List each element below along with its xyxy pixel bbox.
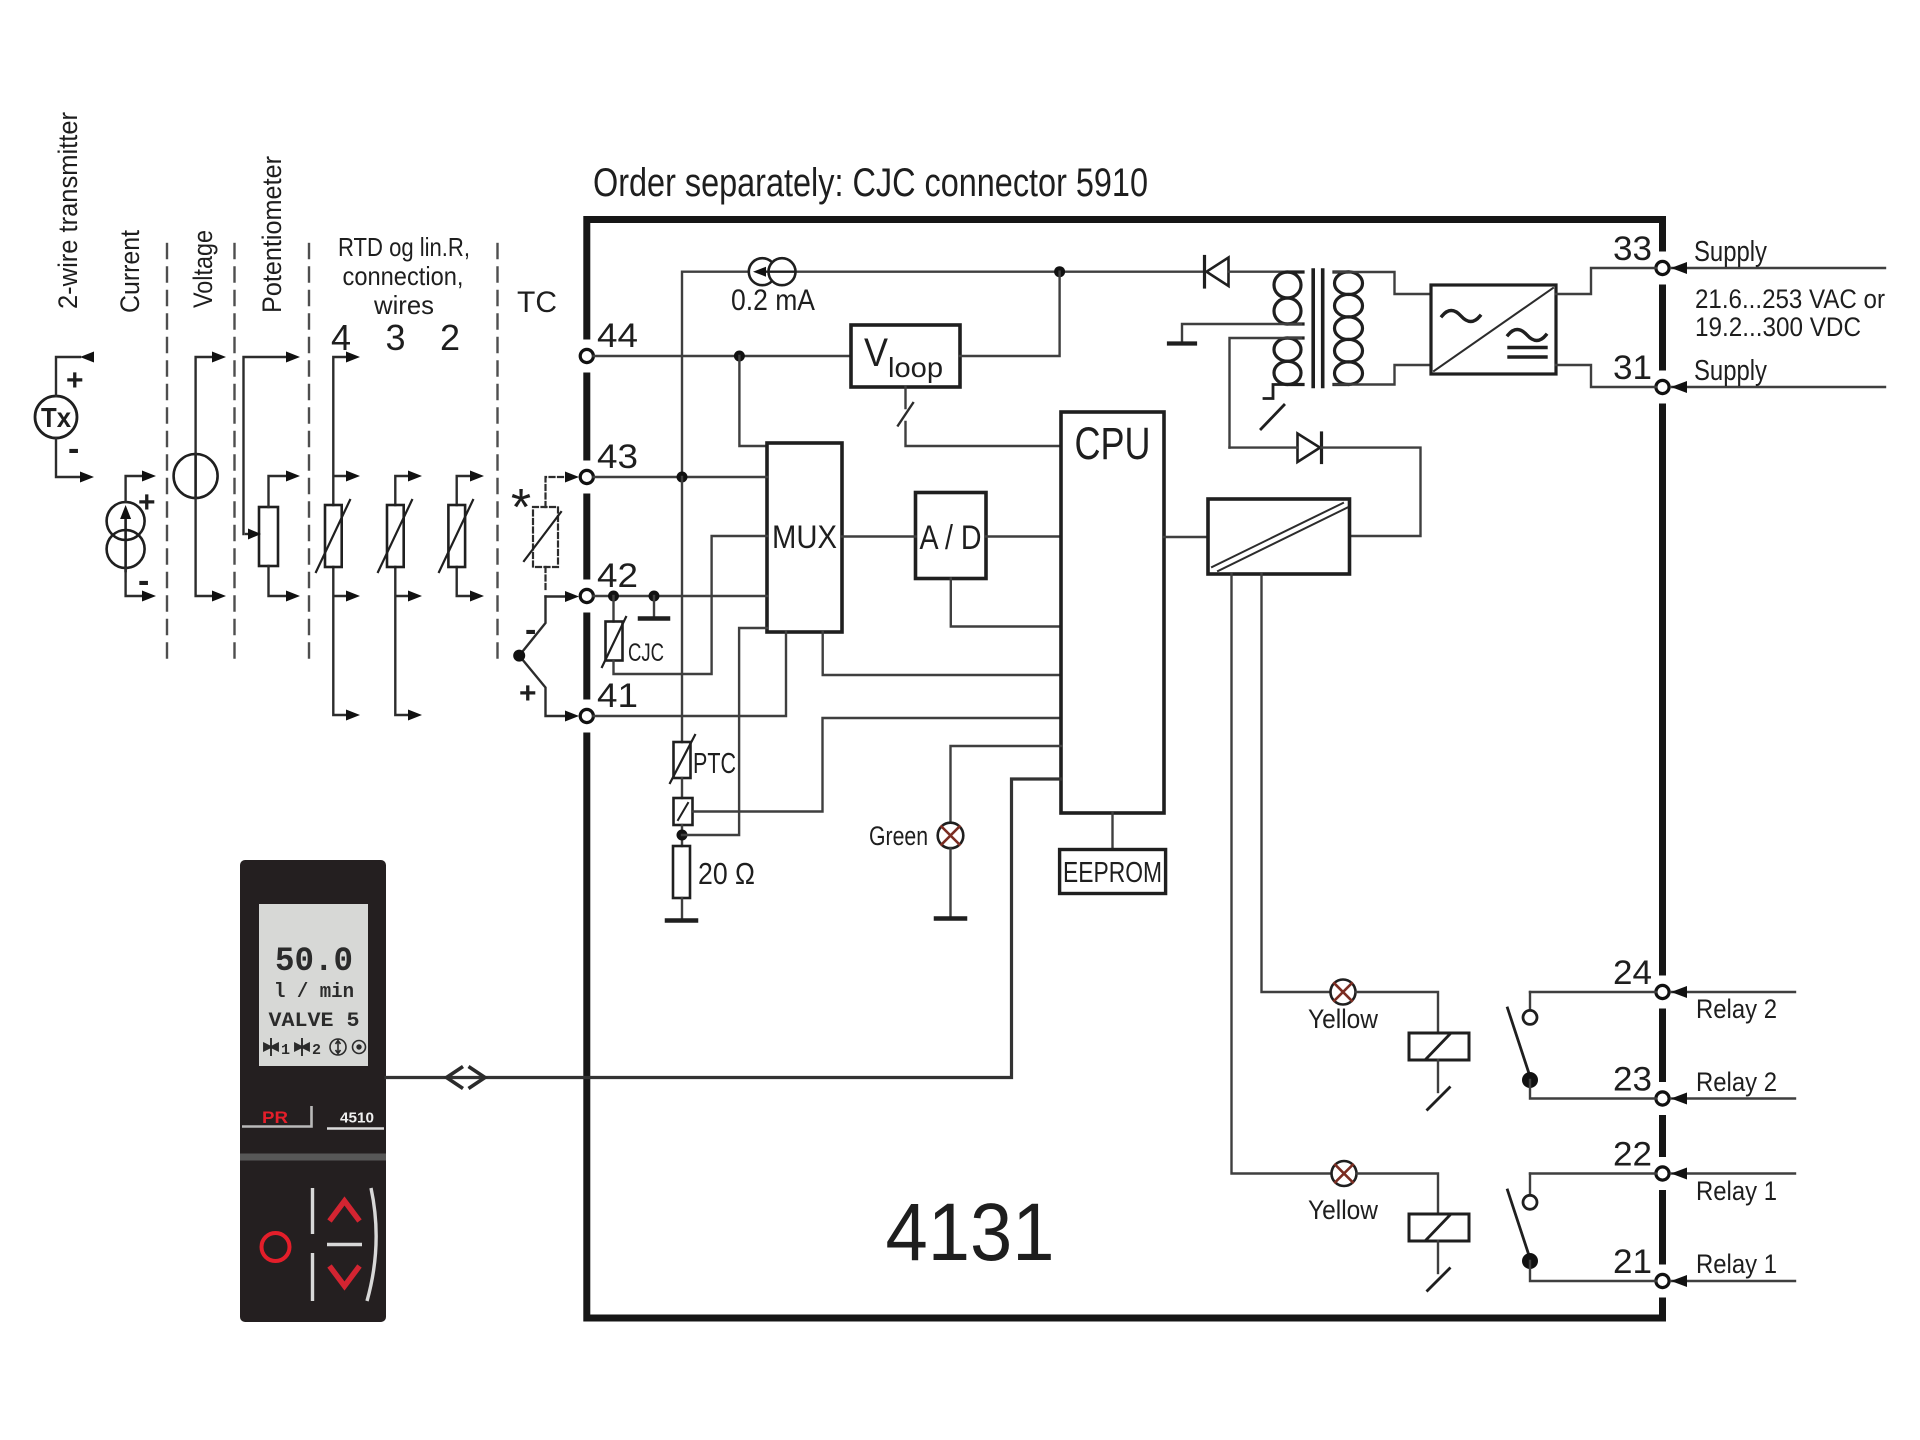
svg-text:3: 3: [385, 317, 405, 358]
svg-text:2: 2: [440, 317, 460, 358]
switch relay2: [1529, 992, 1531, 1009]
box CPU: [1061, 412, 1164, 813]
svg-text:Relay 2: Relay 2: [1696, 994, 1777, 1024]
wire voltage plus: [196, 357, 212, 454]
svg-text:l / min: l / min: [274, 981, 354, 1004]
transformer primary upper: [1274, 272, 1301, 298]
svg-text:23: 23: [1613, 1061, 1652, 1099]
LED yellow relay1: [1332, 1161, 1357, 1186]
wire zero-adjust to CPU: [693, 718, 1062, 812]
svg-text:Order separately: CJC connecto: Order separately: CJC connector 5910: [593, 161, 1148, 205]
wire opto to relay1 LED: [1232, 574, 1332, 1174]
svg-text:2-wire transmitter: 2-wire transmitter: [53, 112, 83, 309]
svg-text:+: +: [519, 677, 537, 710]
resistor CJC: [612, 596, 614, 622]
svg-text:44: 44: [597, 317, 638, 355]
svg-text:31: 31: [1613, 349, 1652, 387]
wire relay1 22: [1671, 1172, 1795, 1174]
svg-text:41: 41: [597, 677, 638, 715]
svg-text:2: 2: [312, 1042, 321, 1059]
svg-text:22: 22: [1613, 1136, 1652, 1174]
wire MUX to AD: [842, 535, 916, 537]
svg-text:Potentiometer: Potentiometer: [257, 156, 287, 313]
CJC connector 5910 dashed resistor: [533, 507, 558, 567]
box EEPROM: [1060, 850, 1166, 894]
switch relay1: [1529, 1174, 1531, 1195]
svg-text:+: +: [138, 486, 156, 519]
junction dot 42b: [649, 591, 660, 602]
separator dashed 2: [233, 244, 235, 660]
resistor zero-adjust: [681, 778, 683, 798]
svg-text:21.6...253 VAC or: 21.6...253 VAC or: [1695, 284, 1885, 314]
optocoupler box: [1208, 499, 1350, 574]
wire 43 to MUX: [593, 476, 767, 478]
wire D2 to opto: [1322, 448, 1421, 536]
wire Tx plus: [56, 357, 80, 396]
resistor PTC: [681, 477, 683, 742]
wire CPU to EEPROM: [1111, 813, 1113, 850]
LED yellow relay2: [1331, 980, 1356, 1005]
resistor 20 ohm: [673, 846, 690, 898]
wire voltage minus: [196, 498, 212, 596]
svg-text:-: -: [138, 562, 149, 600]
wire potentiometer bottom: [269, 566, 287, 596]
wire 24 to switch: [1530, 991, 1656, 993]
wire 22 to switch: [1530, 1172, 1656, 1174]
svg-text:wires: wires: [373, 290, 434, 320]
voltage source: [174, 454, 218, 498]
wire primary lower top lead: [1230, 338, 1302, 448]
relay coil 2: [1409, 1033, 1469, 1060]
svg-text:4131: 4131: [886, 1187, 1055, 1278]
svg-text:-: -: [68, 430, 79, 468]
keypad divider: [311, 1188, 314, 1301]
svg-text:CJC: CJC: [628, 639, 664, 667]
svg-text:RTD og lin.R,: RTD og lin.R,: [338, 232, 470, 262]
wire potentiometer top: [269, 476, 287, 507]
svg-text:V: V: [864, 331, 888, 375]
svg-text:loop: loop: [888, 352, 943, 383]
thermocouple junction: [519, 597, 564, 717]
wire MUX bottom to CPU: [823, 632, 1061, 675]
svg-text:Current: Current: [115, 230, 145, 313]
terminal 31: [1656, 380, 1669, 393]
RTD 4-wire column: [333, 357, 346, 715]
diode D2: [1298, 434, 1321, 463]
transformer primary lower: [1274, 338, 1301, 361]
wire Vloop bottom break: [906, 387, 1062, 446]
svg-text:Supply: Supply: [1694, 355, 1767, 387]
wire relay2 24: [1671, 991, 1795, 993]
terminal 43: [580, 470, 593, 483]
svg-text:TC: TC: [517, 286, 557, 319]
main box 4131 outline: [587, 220, 1663, 1319]
svg-text:+: +: [66, 364, 84, 397]
wire display comm to CPU: [386, 779, 1061, 1078]
svg-text:EEPROM: EEPROM: [1063, 857, 1162, 889]
svg-text:CPU: CPU: [1075, 418, 1151, 469]
wire opto to relay2 LED: [1262, 574, 1331, 992]
junction dot 0.2mA right: [1054, 266, 1065, 277]
svg-text:PTC: PTC: [693, 748, 736, 780]
svg-text:20 Ω: 20 Ω: [698, 856, 755, 891]
diode D1: [1203, 257, 1206, 288]
junction dot 43: [677, 472, 688, 483]
wire relay2 23: [1671, 1097, 1795, 1099]
keypad arc: [367, 1188, 376, 1301]
wire ACDC to 33: [1556, 268, 1656, 294]
resistor RTD4: [325, 505, 342, 567]
terminal 41: [580, 709, 593, 722]
svg-text:Green: Green: [869, 821, 928, 851]
terminal 33: [1656, 261, 1669, 274]
svg-text:Yellow: Yellow: [1308, 1004, 1378, 1034]
comm arrows: [447, 1068, 462, 1088]
svg-text:50.0: 50.0: [275, 943, 353, 981]
svg-text:Relay 2: Relay 2: [1696, 1067, 1777, 1097]
svg-text:A / D: A / D: [920, 519, 982, 557]
svg-text:43: 43: [597, 438, 638, 476]
svg-text:Tx: Tx: [41, 402, 71, 433]
RTD 3-wire column: [395, 476, 408, 715]
svg-text:33: 33: [1613, 230, 1652, 268]
svg-text:1: 1: [281, 1042, 290, 1059]
wire LED1 to relay coil: [1357, 1174, 1438, 1215]
terminal 42: [580, 589, 593, 602]
ground 20 ohm: [681, 898, 683, 919]
wire 44dot to MUX: [739, 356, 767, 446]
transmitter Tx: [35, 396, 77, 438]
converter ACDC box: [1431, 285, 1556, 374]
LCD icons row: [264, 1038, 366, 1059]
terminal 22: [1656, 1167, 1669, 1180]
wire AD bottom to CPU: [951, 579, 1061, 627]
wire ACDC to 31: [1556, 365, 1656, 387]
wire Tx minus: [56, 438, 80, 477]
svg-text:21: 21: [1613, 1243, 1652, 1281]
svg-text:19.2...300 VDC: 19.2...300 VDC: [1695, 312, 1861, 342]
terminal 44: [580, 349, 593, 362]
svg-text:4510: 4510: [340, 1110, 374, 1127]
wire relay1 21: [1671, 1280, 1795, 1282]
relay coil 1: [1409, 1214, 1469, 1241]
wire potentiometer wiper: [244, 357, 287, 534]
wire 0.2mA net: [682, 272, 1205, 477]
separator dashed 3: [308, 244, 310, 660]
svg-text:24: 24: [1613, 954, 1652, 992]
junction dot wire44: [734, 351, 745, 362]
svg-text:connection,: connection,: [343, 261, 464, 291]
box Vloop: [851, 325, 960, 387]
RTD 2-wire column: [457, 476, 470, 596]
wire dot to MUX pin: [682, 628, 767, 835]
svg-text:Relay 1: Relay 1: [1696, 1249, 1777, 1279]
svg-text:Voltage: Voltage: [188, 230, 218, 308]
terminal 24: [1656, 985, 1669, 998]
button down red: [330, 1266, 360, 1286]
LED green wire: [951, 746, 1062, 848]
svg-text:VALVE 5: VALVE 5: [269, 1010, 360, 1033]
separator dashed 4: [496, 244, 498, 660]
svg-text:0.2 mA: 0.2 mA: [731, 284, 815, 317]
transformer core: [1313, 270, 1323, 387]
wire supply 31: [1671, 386, 1885, 388]
wire AD to CPU: [986, 535, 1061, 537]
svg-text:Yellow: Yellow: [1308, 1195, 1378, 1225]
terminal 23: [1656, 1092, 1669, 1105]
svg-text:-: -: [525, 611, 536, 649]
wire Vloop out: [960, 272, 1060, 356]
ground 42: [653, 596, 655, 617]
wire TC dashed to 42: [544, 567, 546, 592]
wire switch to D2: [1230, 446, 1298, 448]
resistor RTD2: [448, 505, 465, 567]
terminal 21: [1656, 1274, 1669, 1287]
display device 4510 body: [240, 860, 386, 1322]
wire 44 to Vloop: [593, 355, 851, 357]
resistor RTD3: [387, 505, 404, 567]
box AD: [916, 493, 987, 579]
LED green: [938, 823, 964, 849]
wire current minus: [126, 568, 142, 596]
ground LED green: [949, 848, 951, 917]
svg-text:Relay 1: Relay 1: [1696, 1176, 1777, 1206]
junction dot 42a: [608, 591, 619, 602]
current source: [107, 502, 145, 540]
box MUX: [767, 443, 842, 632]
svg-text:*: *: [511, 479, 531, 537]
wire TC dashed to 43: [546, 477, 565, 507]
svg-text:PR: PR: [262, 1108, 288, 1127]
junction dot below zero-adjust: [681, 825, 683, 846]
button up red: [330, 1201, 360, 1221]
wire D1 to transformer: [1229, 271, 1302, 273]
wire secondary top to ACDC: [1335, 272, 1432, 294]
wire supply 33: [1671, 267, 1885, 269]
wire 41 to MUX: [593, 632, 786, 716]
transformer secondary: [1335, 272, 1363, 295]
wire secondary bottom to ACDC: [1335, 365, 1432, 385]
svg-text:4: 4: [331, 317, 351, 358]
wire current plus: [126, 476, 142, 502]
transformer center tap ground: [1182, 324, 1301, 342]
switch primary: [1264, 385, 1301, 399]
display LCD: [259, 904, 368, 1066]
svg-text:42: 42: [597, 557, 638, 595]
separator dashed 1: [166, 244, 168, 660]
button circle red: [262, 1233, 290, 1261]
svg-text:MUX: MUX: [772, 519, 837, 555]
wire LED2 to relay coil: [1356, 992, 1438, 1033]
wire CJC to MUX: [614, 536, 768, 674]
wire 42 to MUX: [593, 595, 767, 597]
wire CPU to opto: [1164, 536, 1208, 538]
potentiometer body: [259, 507, 278, 566]
current source 0.2mA: [749, 258, 776, 285]
device separator band: [240, 1154, 386, 1161]
svg-text:Supply: Supply: [1694, 236, 1767, 268]
